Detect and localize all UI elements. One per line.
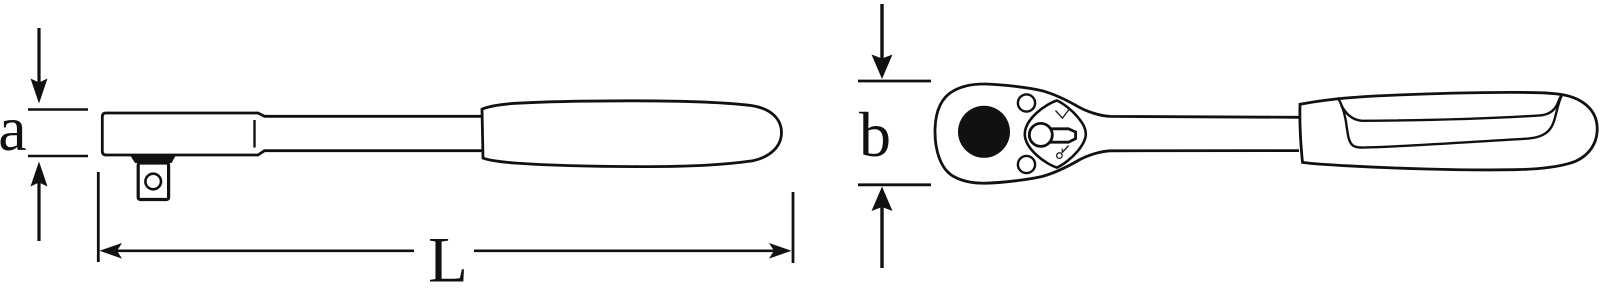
dim L: right extension line — [792, 192, 795, 263]
head/handle divider line — [253, 120, 255, 148]
dim L: right arrowhead — [769, 243, 792, 259]
square drive — [138, 163, 168, 200]
dim b: up arrow line — [880, 204, 883, 268]
dim L: line left segment — [112, 250, 414, 253]
head top view outline — [935, 84, 1299, 183]
tiny letter L mark (rotated) — [1056, 108, 1071, 118]
rivet circle top — [1018, 94, 1035, 111]
dim b: bottom tick — [858, 183, 931, 186]
dim L: left arrowhead — [100, 243, 123, 259]
dim b: down arrowhead — [872, 55, 893, 80]
dim a: up arrowhead — [31, 162, 48, 187]
dim L: line right segment — [474, 250, 780, 253]
dim b: up arrowhead — [872, 187, 893, 212]
dim a: top tick — [28, 108, 88, 111]
dim a: up arrow line — [37, 180, 40, 241]
lever knob tab — [1049, 129, 1076, 142]
lever knob circle — [1029, 123, 1052, 146]
dim a: down arrowhead — [31, 79, 48, 104]
grip inner contour bottom loop — [1338, 95, 1563, 148]
grip inner contour top line — [1341, 95, 1562, 121]
collar under head — [130, 155, 176, 163]
dim a: down arrow line — [37, 28, 40, 86]
tiny letter R mark (rotated) — [1057, 146, 1069, 159]
svg-text:a: a — [0, 93, 27, 164]
svg-text:L: L — [428, 225, 468, 294]
svg-text:b: b — [859, 99, 891, 170]
grip side view — [482, 101, 782, 167]
rivet circle bottom — [1018, 156, 1035, 173]
dim a: bottom tick — [28, 155, 88, 158]
grip top view outer outline — [1300, 92, 1597, 170]
dim L: left extension line — [97, 172, 100, 262]
dim b: down arrow line — [880, 4, 883, 62]
dim b: top tick — [858, 80, 931, 83]
drive pin hole — [145, 174, 161, 190]
reverse lever plate — [1025, 101, 1086, 168]
ratchet body side view: head + shaft outline — [102, 113, 482, 155]
drive circle (filled) — [958, 106, 1010, 158]
